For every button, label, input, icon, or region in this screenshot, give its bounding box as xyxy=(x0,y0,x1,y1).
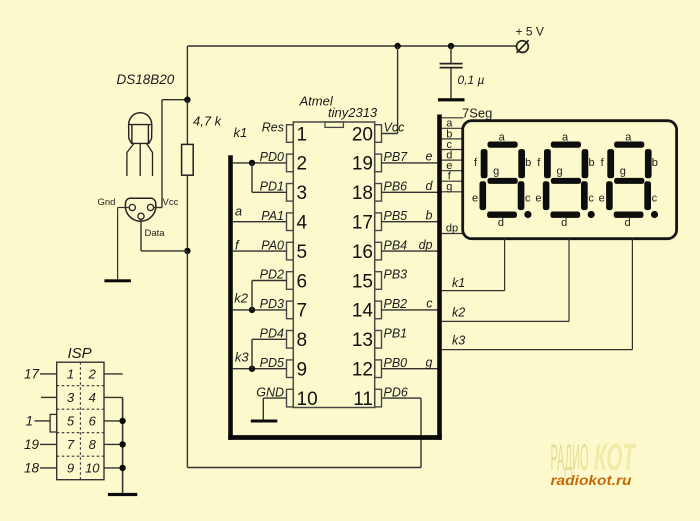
svg-text:k1: k1 xyxy=(452,276,465,290)
pin 15 box xyxy=(375,272,382,290)
pin Gnd circle xyxy=(129,204,135,210)
svg-text:Vcc: Vcc xyxy=(384,121,406,135)
wire branch to PD1 xyxy=(252,163,287,192)
svg-text:15: 15 xyxy=(352,271,373,292)
wire right bus thick xyxy=(437,115,442,440)
svg-text:ISP: ISP xyxy=(68,345,92,362)
wire ISP pin7 stub xyxy=(40,443,57,445)
svg-text:g: g xyxy=(493,166,499,178)
wire k2 display cathode xyxy=(442,239,569,322)
svg-text:PD5: PD5 xyxy=(260,356,284,370)
connector ISP box xyxy=(57,362,104,480)
svg-text:DS18B20: DS18B20 xyxy=(117,72,175,87)
svg-text:2: 2 xyxy=(88,367,97,382)
svg-text:b: b xyxy=(652,157,658,169)
junction ISP pin6 xyxy=(119,418,125,424)
junction data node xyxy=(184,248,190,254)
svg-text:9: 9 xyxy=(67,461,74,476)
svg-text:d: d xyxy=(498,217,504,229)
pin Vcc circle xyxy=(147,204,153,210)
svg-text:c: c xyxy=(525,192,531,204)
svg-text:e: e xyxy=(426,150,433,164)
wire ISP pin9 stub xyxy=(40,467,57,469)
svg-text:c: c xyxy=(426,297,433,311)
svg-text:b: b xyxy=(426,209,433,223)
svg-text:18: 18 xyxy=(24,460,40,475)
svg-text:d: d xyxy=(426,179,434,193)
svg-text:2: 2 xyxy=(297,154,308,175)
wire ISP pin6 stub xyxy=(104,420,123,422)
svg-text:c: c xyxy=(652,192,658,204)
wire dp pin to bus xyxy=(382,250,442,252)
svg-text:b: b xyxy=(588,157,594,169)
wire dp rung xyxy=(442,233,464,235)
svg-text:c: c xyxy=(588,192,594,204)
svg-text:g: g xyxy=(620,166,626,178)
junction rail to capacitor xyxy=(448,43,454,49)
wire sensor Gnd to ground xyxy=(118,208,130,280)
svg-text:e: e xyxy=(472,192,478,204)
node +5V rail wire xyxy=(187,45,516,47)
svg-text:4,7 k: 4,7 k xyxy=(193,114,223,129)
svg-text:a: a xyxy=(562,132,569,144)
wire bottom bus thick xyxy=(228,435,442,440)
wire k2 to PD3 xyxy=(233,309,287,311)
pin 3 box xyxy=(287,184,294,202)
pin Data circle xyxy=(138,213,144,219)
svg-text:PB6: PB6 xyxy=(384,180,408,194)
svg-text:PD6: PD6 xyxy=(384,385,408,399)
svg-text:e: e xyxy=(599,192,605,204)
pin 5 box xyxy=(287,242,294,260)
svg-text:Vcc: Vcc xyxy=(163,197,179,208)
wire segment ladder rungs a-g xyxy=(442,118,464,192)
svg-text:k3: k3 xyxy=(452,334,465,348)
svg-text:8: 8 xyxy=(297,330,308,351)
svg-text:3: 3 xyxy=(67,390,75,405)
svg-text:6: 6 xyxy=(89,414,97,429)
wire IC Vcc pin20 to rail xyxy=(382,46,398,134)
svg-text:4: 4 xyxy=(89,390,96,405)
svg-text:4: 4 xyxy=(297,213,308,234)
wire GND pin10 xyxy=(263,398,286,419)
display 7Seg box xyxy=(463,121,677,239)
svg-text:PB4: PB4 xyxy=(384,238,408,252)
pin 8 box xyxy=(287,331,294,349)
svg-text:13: 13 xyxy=(352,330,373,351)
wire f to PA0 xyxy=(233,250,287,252)
svg-text:PB1: PB1 xyxy=(384,327,408,341)
svg-text:k3: k3 xyxy=(235,350,250,365)
wire PD6 riser xyxy=(420,398,422,467)
svg-text:dp: dp xyxy=(419,238,433,252)
svg-text:19: 19 xyxy=(24,437,40,452)
svg-text:3: 3 xyxy=(297,183,308,204)
pin 13 box xyxy=(375,331,382,349)
pin 16 box xyxy=(375,242,382,260)
svg-text:+ 5 V: + 5 V xyxy=(516,25,544,39)
pin 18 box xyxy=(375,184,382,202)
svg-text:g: g xyxy=(556,166,562,178)
wire left bus thick xyxy=(228,155,233,440)
wire capacitor top lead xyxy=(450,46,452,63)
junction ISP pin8 xyxy=(119,441,125,447)
junction ISP pin10 xyxy=(119,465,125,471)
wire d pin to bus xyxy=(382,191,442,193)
wire sensor Vcc riser xyxy=(154,100,188,208)
digit 1 of display xyxy=(472,132,531,230)
pin 6 box xyxy=(287,272,294,290)
pin 14 box xyxy=(375,301,382,319)
svg-text:k2: k2 xyxy=(234,291,249,306)
wire capacitor bottom lead xyxy=(450,68,452,98)
svg-text:Gnd: Gnd xyxy=(98,197,116,208)
svg-text:e: e xyxy=(535,192,541,204)
resistor R1 4,7k xyxy=(182,144,194,175)
wire ISP pin3 stub xyxy=(41,396,57,398)
junction rail to IC Vcc xyxy=(394,43,400,49)
ISP divider dashed vertical xyxy=(79,362,81,480)
ground ISP xyxy=(108,493,137,496)
wire ISP pin5 stub xyxy=(35,420,51,422)
pin 19 box xyxy=(375,154,382,172)
svg-text:7: 7 xyxy=(297,301,308,322)
svg-text:GND: GND xyxy=(256,385,284,399)
digit 2 of display xyxy=(535,132,594,230)
svg-text:PA0: PA0 xyxy=(261,238,284,252)
IC notch xyxy=(325,122,343,127)
wire k1 to PD0 xyxy=(233,162,287,164)
svg-text:5: 5 xyxy=(67,414,75,429)
junction k1 xyxy=(249,160,255,166)
pin 11 box xyxy=(375,389,382,407)
wire k1 display cathode xyxy=(442,239,505,291)
svg-text:18: 18 xyxy=(352,183,373,204)
svg-text:9: 9 xyxy=(297,360,308,381)
wire e pin to bus xyxy=(382,162,442,164)
wire resistor top lead xyxy=(186,100,188,145)
svg-text:0,1 µ: 0,1 µ xyxy=(458,73,485,87)
svg-text:PD3: PD3 xyxy=(260,297,284,311)
svg-text:g: g xyxy=(446,181,452,193)
wire a to PA1 xyxy=(233,221,287,223)
svg-text:dp: dp xyxy=(446,222,458,234)
svg-text:1: 1 xyxy=(25,413,33,428)
wire ISP pin10 stub xyxy=(104,467,123,469)
wire c pin to bus xyxy=(382,309,442,311)
wire ISP pin8 stub xyxy=(104,443,123,445)
capacitor C1 0,1u plates xyxy=(440,64,463,68)
svg-text:PD0: PD0 xyxy=(260,150,284,164)
svg-text:10: 10 xyxy=(85,461,100,476)
svg-text:tiny2313: tiny2313 xyxy=(328,105,378,120)
svg-text:7: 7 xyxy=(67,437,75,452)
digit 3 of display xyxy=(599,132,658,230)
wire pin11 PD6 stub xyxy=(382,397,422,399)
wire k3 display cathode xyxy=(442,239,633,350)
ISP pin5 key bracket xyxy=(50,414,57,432)
svg-text:1: 1 xyxy=(67,367,74,382)
svg-text:17: 17 xyxy=(24,367,40,382)
junction resistor top xyxy=(184,97,190,103)
wire g pin to bus xyxy=(382,368,442,370)
junction k3 xyxy=(249,366,255,372)
wire b pin to bus xyxy=(382,221,442,223)
svg-text:PA1: PA1 xyxy=(261,209,284,223)
pin 7 box xyxy=(287,301,294,319)
svg-text:11: 11 xyxy=(353,389,373,410)
ground sensor xyxy=(104,279,130,282)
svg-text:19: 19 xyxy=(352,154,373,175)
svg-text:b: b xyxy=(525,157,531,169)
svg-text:a: a xyxy=(499,132,506,144)
+5V terminal xyxy=(517,40,529,53)
svg-text:PB3: PB3 xyxy=(384,268,408,282)
svg-text:a: a xyxy=(235,204,242,219)
svg-text:17: 17 xyxy=(352,213,373,234)
svg-text:radiokot.ru: radiokot.ru xyxy=(551,472,632,488)
svg-text:Res: Res xyxy=(262,121,284,135)
op IC U1 ATtiny2313 body xyxy=(293,122,374,408)
svg-text:d: d xyxy=(624,217,630,229)
svg-text:14: 14 xyxy=(352,301,374,322)
pin 2 box xyxy=(287,154,294,172)
pin 1 box xyxy=(287,125,294,143)
svg-text:7Seg: 7Seg xyxy=(462,106,492,121)
wire k3 to PD5 xyxy=(233,368,287,370)
junction k2 xyxy=(249,307,255,313)
pin 4 box xyxy=(287,213,294,231)
pin 17 box xyxy=(375,213,382,231)
svg-text:20: 20 xyxy=(352,124,373,145)
pin 9 box xyxy=(287,360,294,378)
wire ISP pin4 stub xyxy=(104,396,123,398)
svg-text:PB0: PB0 xyxy=(384,356,408,370)
svg-text:16: 16 xyxy=(352,242,373,263)
wire PD6 long run bottom xyxy=(187,467,421,469)
svg-text:g: g xyxy=(426,356,433,370)
sensor DS18B20 TO-92 side view xyxy=(127,113,153,176)
svg-text:1: 1 xyxy=(297,124,308,145)
svg-text:12: 12 xyxy=(352,360,373,381)
wire ISP pin1 stub xyxy=(40,373,57,375)
wire ISP pin2 stub xyxy=(104,373,123,375)
svg-text:PD2: PD2 xyxy=(260,268,284,282)
svg-text:PB7: PB7 xyxy=(384,150,409,164)
wire sensor Data xyxy=(141,219,187,251)
ISP divider dashed rows xyxy=(57,386,104,457)
wire data node down to PD6 run xyxy=(186,251,188,468)
pin 10 box xyxy=(287,389,294,407)
ground IC xyxy=(251,420,277,423)
pin 12 box xyxy=(375,360,382,378)
sensor DS18B20 bottom view package xyxy=(125,198,155,221)
svg-text:PD4: PD4 xyxy=(260,327,284,341)
wire rail corner down to resistor junction xyxy=(186,46,188,100)
ground capacitor xyxy=(438,98,465,101)
svg-text:k1: k1 xyxy=(234,125,248,140)
svg-text:6: 6 xyxy=(297,271,308,292)
svg-text:k2: k2 xyxy=(452,306,465,320)
pin 20 box xyxy=(375,125,382,143)
svg-text:5: 5 xyxy=(297,242,308,263)
svg-text:Data: Data xyxy=(145,228,166,239)
svg-text:10: 10 xyxy=(297,389,318,410)
wire branch to PD2 xyxy=(252,281,287,310)
wire ISP ground riser xyxy=(122,397,124,493)
svg-text:PD1: PD1 xyxy=(260,180,284,194)
svg-text:d: d xyxy=(561,217,567,229)
svg-text:a: a xyxy=(625,132,632,144)
wire resistor bottom lead xyxy=(186,175,188,251)
svg-text:PB5: PB5 xyxy=(384,209,408,223)
wire branch to PD4 xyxy=(252,339,287,368)
svg-text:PB2: PB2 xyxy=(384,297,408,311)
svg-text:8: 8 xyxy=(89,437,97,452)
